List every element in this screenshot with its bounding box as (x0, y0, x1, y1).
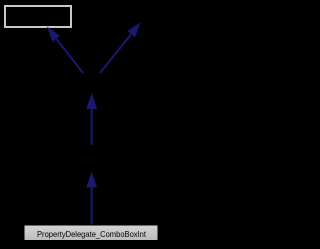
svg-text:PropertyDelegate_ComboBoxInt: PropertyDelegate_ComboBoxInt (37, 229, 147, 239)
